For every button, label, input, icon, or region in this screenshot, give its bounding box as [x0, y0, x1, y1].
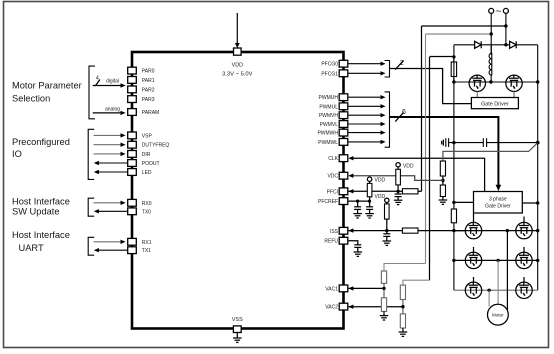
wire PFCG0 arrow — [348, 62, 385, 66]
bracket PAR group — [89, 66, 95, 119]
wire PWMUL arrow — [348, 104, 385, 108]
capacitor C4 PFCREF — [354, 201, 361, 214]
wire ISS pin line — [348, 228, 402, 232]
wire arrow out of LED — [94, 170, 128, 174]
wire R6 to v1 bus — [418, 190, 422, 192]
ground VAC2 divider — [399, 328, 408, 336]
wire Q5 gate stub — [473, 247, 475, 252]
wire VDC pin to tap — [348, 174, 443, 181]
wire arrow into DIR — [94, 152, 126, 156]
svg-text:6: 6 — [402, 109, 406, 116]
node DC link at DC+ bus — [536, 141, 540, 145]
node VAC1 — [382, 287, 385, 290]
wire arrow into RX0 — [94, 201, 126, 205]
pin DIR — [128, 151, 137, 158]
wire Q1 gate to driver — [476, 92, 478, 98]
wire PWMVL arrow — [348, 122, 385, 126]
wire arrow out of TX0 — [94, 209, 128, 213]
resistor R7 PFCREF pullup — [367, 183, 372, 196]
wire R1 to switch rail — [453, 77, 455, 83]
svg-text:PFCG0: PFCG0 — [321, 62, 338, 68]
wire R5 to PFCI line — [397, 185, 399, 194]
resistor R9 ISS series — [402, 228, 418, 233]
pin PAR1 — [128, 77, 137, 84]
wire PWMVH arrow — [348, 113, 385, 117]
node PFCREF cap2 — [368, 200, 371, 203]
wire motor lead U — [506, 231, 508, 311]
svg-text:POOUT: POOUT — [142, 161, 160, 167]
capacitor C7 REFU — [354, 245, 361, 252]
motor M1 — [488, 304, 509, 325]
wire PFCG1 arrow — [348, 71, 385, 75]
bracket UART group — [88, 237, 94, 255]
wire DC link rail — [449, 142, 484, 144]
wire analog arrow into PARAM — [93, 111, 126, 115]
pin VAC1 — [339, 285, 348, 292]
wire motor lead W — [488, 290, 490, 306]
pin PWMUH — [339, 94, 348, 101]
wire Q7 gate stub — [473, 277, 475, 282]
pin VAC2 — [339, 303, 348, 310]
svg-text:DUTYFREQ: DUTYFREQ — [142, 143, 170, 149]
node motor phase W — [487, 289, 490, 292]
svg-text:PWMUL: PWMUL — [319, 104, 338, 110]
svg-text:Gate Driver: Gate Driver — [485, 203, 511, 209]
node ISS junction — [385, 229, 388, 232]
pin TX1 — [128, 247, 137, 254]
pin REFU — [339, 237, 348, 244]
node ISS shunt junction — [452, 229, 455, 232]
power VDD pullup PFCREF — [367, 177, 371, 181]
svg-text:TX0: TX0 — [142, 209, 151, 215]
bracket PWM bus — [385, 92, 390, 147]
wire Q8 gate stub — [523, 277, 525, 282]
wire row1 — [454, 230, 538, 232]
svg-text:~: ~ — [495, 6, 501, 18]
svg-text:Gate Driver: Gate Driver — [481, 101, 509, 107]
svg-text:PAR2: PAR2 — [142, 87, 155, 93]
power VDD pullup ISS — [385, 198, 389, 202]
node AC2 diode rail — [504, 43, 507, 46]
svg-text:PWMVL: PWMVL — [320, 122, 339, 128]
svg-text:UART: UART — [19, 243, 44, 253]
wire AC2 vertical to diode line — [505, 13, 507, 44]
wire arrow into RX1 — [94, 240, 126, 244]
ground PFCI — [394, 200, 403, 204]
power VDD pullup PFCI — [396, 163, 400, 167]
wire VAC1 pin line — [348, 286, 384, 290]
ground C4 — [353, 214, 362, 218]
svg-text:SW Update: SW Update — [12, 207, 60, 217]
svg-text:PAR1: PAR1 — [142, 78, 155, 84]
wire R10 to VAC1 node — [383, 283, 385, 297]
bracket Preconfigured IO group — [88, 129, 94, 179]
svg-text:digital: digital — [106, 78, 119, 84]
capacitor C3 PFCI — [395, 194, 402, 200]
pin DUTYFREQ — [128, 141, 137, 148]
wire AC1 tap to sense bus v2 — [426, 33, 492, 35]
wire row2 — [454, 259, 538, 261]
svg-text:PAR3: PAR3 — [142, 97, 155, 103]
ground C6 — [383, 241, 392, 245]
ground VDC divider — [439, 197, 448, 205]
transistor Q1 PFC FET — [469, 75, 485, 91]
capacitor C5 PFCREF — [366, 207, 373, 214]
IC U1 main block — [132, 52, 344, 329]
wire arrow into DUTYFREQ — [94, 143, 126, 147]
svg-text:Host Interface: Host Interface — [12, 196, 70, 206]
pin RX1 — [128, 238, 137, 245]
svg-text:ISS: ISS — [330, 229, 339, 235]
node PFCI junction — [396, 190, 399, 193]
ground VSS — [233, 333, 242, 343]
bracket PFC gate bus — [385, 61, 390, 78]
op-amp U3 3 phase gate driver box — [474, 192, 523, 214]
wire sense bus v3 vertical — [429, 57, 431, 280]
svg-text:Motor Parameter: Motor Parameter — [12, 81, 82, 91]
svg-text:RX1: RX1 — [142, 240, 152, 246]
ground DC link left — [442, 140, 444, 146]
node AC2 tap — [504, 24, 507, 27]
pin PFCI — [339, 188, 348, 195]
svg-text:Host Interface: Host Interface — [12, 230, 70, 240]
terminal AC line 2 — [503, 8, 508, 13]
wire PWMUH arrow — [348, 95, 385, 99]
svg-text:PARAM: PARAM — [142, 110, 159, 116]
svg-text:VDD: VDD — [375, 194, 386, 200]
wire PFC switch rail — [454, 81, 538, 83]
node VAC2 — [401, 305, 404, 308]
pin PWMVL — [339, 121, 348, 128]
svg-text:PWMUH: PWMUH — [319, 95, 339, 101]
pin VDC — [339, 172, 348, 179]
resistor R13 VAC2 lower — [400, 314, 405, 328]
pin VSP — [128, 132, 137, 139]
svg-text:4: 4 — [96, 75, 99, 81]
wire VDD to R5 — [397, 167, 399, 169]
pin PAR3 — [128, 96, 137, 103]
wire R8 to ISS line — [386, 219, 388, 234]
wire v3 to VAC2 chain — [403, 280, 430, 285]
ground VAC1 divider — [380, 311, 389, 320]
resistor R6 PFCI series — [402, 189, 418, 194]
diode D1 — [475, 41, 482, 48]
wire VDD to R8 — [386, 203, 388, 204]
wire divider mid — [442, 176, 444, 185]
inductor L1 — [491, 53, 493, 75]
svg-text:RX0: RX0 — [142, 201, 152, 207]
transistor Q6 V-low — [516, 252, 532, 268]
pin PAR0 — [128, 67, 137, 74]
wire VDD supply arrow — [235, 13, 240, 48]
svg-text:VSP: VSP — [142, 133, 153, 139]
ground C7 — [354, 252, 363, 256]
resistor R1 PFC input — [451, 62, 456, 77]
op-amp U2 PFC gate driver box — [471, 98, 518, 109]
pin POOUT — [128, 160, 137, 167]
node inductor foot — [489, 80, 492, 83]
pin PAR2 — [128, 86, 137, 93]
svg-text:PFCG1: PFCG1 — [321, 71, 338, 77]
wire AC1 vertical to inductor — [490, 13, 492, 54]
svg-text:Preconfigured: Preconfigured — [12, 137, 70, 147]
pin LED — [128, 169, 137, 176]
wire motor lead V — [497, 260, 499, 304]
svg-text:VSS: VSS — [232, 317, 243, 323]
node row2 left — [452, 259, 455, 262]
pin PWMVH — [339, 112, 348, 119]
resistor R8 ISS pullup — [385, 204, 390, 219]
svg-text:TX1: TX1 — [142, 248, 151, 254]
pin PWMUL — [339, 103, 348, 110]
svg-text:VAC1: VAC1 — [325, 286, 338, 292]
wire VAC2 pin line — [348, 305, 403, 309]
pin CLK — [339, 155, 348, 162]
capacitor C1 DC link — [446, 138, 449, 147]
svg-text:PAR0: PAR0 — [142, 69, 155, 75]
wire PWMWH arrow — [348, 130, 385, 134]
node switch rail right — [536, 80, 539, 83]
svg-text:CLK: CLK — [328, 156, 338, 162]
pin VSS — [233, 326, 241, 333]
resistor R4 VDC lower — [440, 185, 445, 197]
wire v2 to VAC1 chain — [384, 264, 426, 272]
wire AC2 tap to sense bus v1 — [422, 25, 506, 27]
transistor Q4 U-low — [516, 222, 532, 238]
svg-text:VDC: VDC — [327, 174, 338, 180]
pin RX0 — [128, 199, 137, 206]
wire shunt bus lower — [453, 223, 455, 290]
node shunt top — [452, 55, 455, 58]
resistor R5 PFCI pullup — [396, 169, 401, 185]
svg-text:VDD: VDD — [375, 178, 386, 184]
wire PWMWL arrow — [348, 140, 385, 144]
svg-text:PWMVH: PWMVH — [319, 113, 339, 119]
node 3phGD left — [452, 201, 455, 204]
pin TX0 — [128, 208, 137, 215]
pin VDD — [234, 48, 242, 55]
resistor R2 shunt — [451, 209, 456, 223]
node VDC tap — [441, 179, 444, 182]
svg-text:PWMWL: PWMWL — [318, 140, 338, 146]
wire PWM bus to 3 phase gate driver — [390, 117, 502, 191]
capacitor C2 DC link — [483, 138, 486, 147]
pin ISS — [339, 227, 348, 234]
wire diode rail — [454, 44, 538, 46]
wire Q3 gate stub — [473, 213, 475, 222]
svg-text:PWMWH: PWMWH — [317, 131, 338, 137]
wire CLK from 3 phase gate driver — [348, 156, 484, 192]
svg-text:analog: analog — [105, 107, 120, 113]
svg-text:PFCREF: PFCREF — [318, 199, 338, 205]
wire Q6 gate stub — [523, 247, 525, 252]
wire REFU pin line — [348, 241, 358, 245]
node PFCREF cap1 — [356, 200, 359, 203]
transistor Q8 W-low — [516, 282, 532, 298]
svg-text:IO: IO — [12, 149, 22, 159]
wire digital arrow into PAR pins — [93, 83, 126, 87]
node 3phGD right — [536, 201, 539, 204]
wire arrow out of TX1 — [94, 248, 128, 252]
svg-text:DIR: DIR — [142, 152, 151, 158]
bracket SW Update group — [88, 198, 94, 216]
wire VDD to R7 — [369, 181, 371, 183]
transistor Q3 U-high — [465, 222, 481, 238]
svg-text:3 phase: 3 phase — [489, 196, 507, 202]
pin PWMWH — [339, 129, 348, 136]
wire diode rail left drop to shunt resistor — [453, 45, 455, 62]
svg-text:REFU: REFU — [324, 239, 338, 245]
svg-text:3.3V ~ 5.0V: 3.3V ~ 5.0V — [222, 71, 253, 77]
svg-text:Selection: Selection — [12, 94, 50, 104]
node motor phase U — [506, 229, 509, 232]
terminal AC line 1 — [489, 8, 494, 13]
svg-text:VAC2: VAC2 — [325, 305, 338, 311]
wire row3 — [454, 289, 538, 291]
wire Q4 gate stub — [523, 217, 525, 223]
svg-text:VDD: VDD — [403, 163, 414, 169]
pin PFCG0 — [339, 60, 348, 67]
ground C5 — [365, 214, 374, 218]
transistor Q5 V-high — [465, 252, 481, 268]
wire arrow into VSP — [94, 133, 126, 137]
wire sense bus v1 vertical — [421, 26, 423, 191]
diode D2 — [510, 41, 517, 48]
wire R7 to PFCREF line — [369, 197, 371, 207]
resistor R3 VDC upper — [440, 161, 445, 176]
wire DC+ bus right vertical — [537, 45, 539, 290]
wire 3phGD left supply — [454, 201, 474, 203]
node DC link shunt bus — [452, 141, 455, 144]
transistor Q2 PFC FET — [506, 75, 522, 91]
pin PFCREF — [339, 198, 348, 205]
svg-text:VDD: VDD — [232, 63, 243, 69]
svg-text:LED: LED — [142, 170, 152, 176]
wire Q2 gate to driver — [513, 92, 515, 98]
pin PWMWL — [339, 139, 348, 146]
wire 3phGD right supply — [522, 202, 537, 204]
wire R9 to shunt bus — [418, 230, 466, 232]
node AC1 tap — [490, 32, 493, 35]
resistor R11 VAC1 lower — [381, 298, 386, 312]
pin PARAM — [128, 109, 137, 116]
resistor R10 VAC1 upper — [381, 271, 386, 283]
wire v3 top to shunt node — [430, 56, 454, 58]
pin PFCG1 — [339, 70, 348, 77]
wire R12 to VAC2 node — [402, 300, 404, 314]
capacitor C6 ISS — [383, 234, 390, 241]
transistor Q7 W-high — [465, 282, 481, 298]
wire DC bus tap to divider — [443, 143, 537, 161]
wire PFCREF pin line — [348, 200, 369, 202]
node row2 right — [536, 259, 539, 262]
node switch rail left — [452, 80, 455, 83]
wire arrow out of POOUT — [94, 161, 128, 165]
wire PFC gate bus to gate driver — [390, 69, 471, 104]
wire PFCI pin line — [348, 189, 402, 193]
wire shunt bus vertical — [453, 57, 455, 209]
svg-text:PFCI: PFCI — [327, 189, 338, 195]
resistor R12 VAC2 upper — [400, 285, 405, 299]
node motor phase V — [496, 259, 499, 262]
svg-text:Motor: Motor — [492, 313, 504, 318]
wire sense bus v2 vertical (gray) — [425, 34, 427, 264]
node row1 right — [536, 229, 539, 232]
